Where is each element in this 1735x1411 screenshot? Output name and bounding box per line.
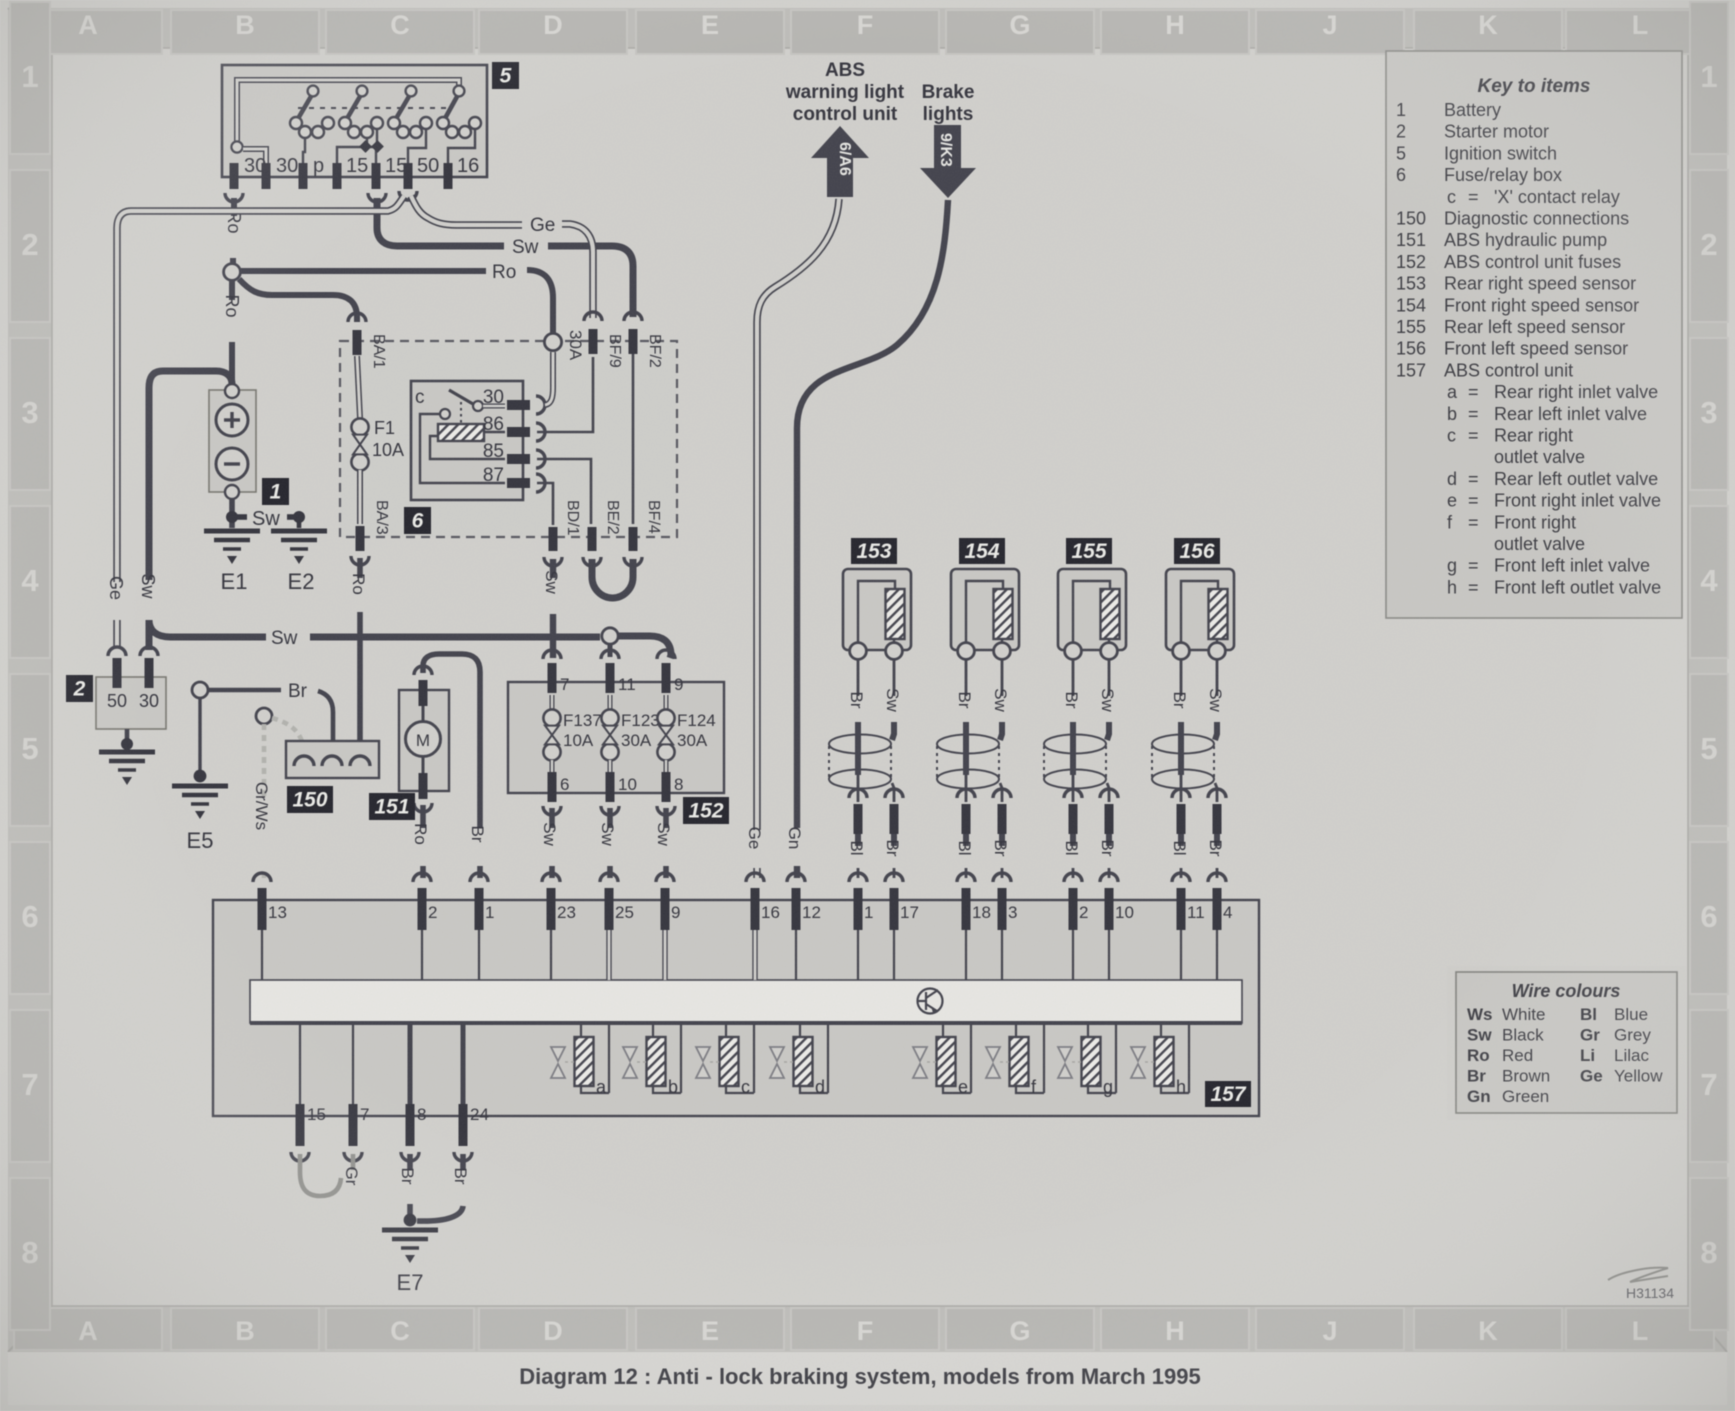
ignition switch contact circles (299, 117, 481, 138)
wire relay 86 to BF/9 (537, 357, 593, 432)
valve b (623, 1023, 681, 1097)
connector BF/2 (624, 312, 663, 368)
ignition switch rail circle (231, 141, 242, 152)
wire Sw battery to starter vertical (138, 371, 232, 650)
wire Sw fuse F123 to pin (598, 808, 617, 878)
relay c body (411, 381, 523, 500)
connector BE/2 (583, 500, 621, 566)
ignition switch terminal pins 30 30 p 15 15 50 16 (230, 155, 480, 189)
ignition switch junction diamonds (359, 140, 384, 153)
starter pins (113, 658, 154, 688)
abs hydraulic pump 151 body (399, 690, 449, 791)
wire Gr pin 15 loose end (300, 1154, 341, 1196)
wire Br pin 24 to E7 (417, 1154, 470, 1221)
abs unit top pins (253, 873, 1232, 980)
wire Ge arrow to pin 16 (757, 199, 839, 830)
wire Sw fuse F124 to pin (654, 808, 673, 878)
abs unit bottom pins (291, 1023, 489, 1161)
wire Ge ignition 50 left branch to starter (117, 196, 404, 582)
fuse relay box 6 black label (404, 507, 431, 534)
wire relay 87 to BD/1 (537, 483, 553, 525)
relay terminals 30 86 85 87 (483, 387, 545, 492)
abs 157 black label (1205, 1081, 1251, 1107)
fuses 152 black label (683, 797, 729, 824)
abs control unit 157 body (213, 900, 1259, 1116)
ground E7 (382, 1230, 438, 1295)
wire Br pin 8 to E7 (398, 1154, 417, 1226)
wire Sw bus horizontal (271, 628, 600, 649)
wire Sw BD/1 to fuse 7 (542, 559, 561, 658)
wire relay 85 to BE/2 (537, 459, 591, 524)
valve c (696, 1023, 754, 1097)
arrow 9/K3 down (920, 125, 976, 198)
connector BA/1 (348, 313, 387, 369)
battery minus terminal (216, 448, 248, 480)
Brake lights text (922, 82, 975, 125)
speed sensor 153 (829, 538, 911, 878)
caption strip (8, 1352, 1727, 1405)
wire Ro BA/3 to diagnostic box (349, 558, 368, 755)
wire Sw fuse F137 to pin (540, 808, 559, 878)
speed sensor 156 (1152, 538, 1234, 878)
fuse F124 30A (657, 650, 716, 815)
valve a (551, 1023, 609, 1097)
wire Sw battery negative to E1 (226, 499, 280, 530)
starter ground symbol (99, 752, 155, 785)
wire Br node to diagnostic box (208, 681, 333, 755)
relay dashed actuator line (460, 402, 462, 424)
starter motor 2 black label (66, 675, 93, 702)
valve e (913, 1023, 971, 1097)
pump 151 black label (369, 793, 415, 820)
starter ground wire (121, 729, 133, 750)
key to items text (1396, 76, 1661, 597)
wire Sw bus branch from starter vertical (149, 620, 266, 637)
pump motor M (406, 722, 441, 757)
pump top pin (414, 666, 432, 722)
wire colours text (1467, 981, 1663, 1106)
diagnostic 150 black label (287, 786, 333, 813)
speed sensor 154 (937, 538, 1019, 878)
wire node to E5 (194, 698, 207, 782)
valve d (770, 1023, 828, 1097)
wire U loop BE/2 to BF/4 (592, 559, 633, 598)
ignition switch rail link to terminal 30b (243, 149, 266, 164)
wire Ro node to 30A horizontal (241, 262, 553, 333)
ignition switch 5 body (222, 65, 487, 177)
node Sw bus junction circle (602, 628, 618, 644)
wire Sw bus circle to fuse 11 (608, 644, 613, 657)
ignition switch inner supply rail (237, 80, 459, 145)
fuse relay box 6 dashed outline (340, 341, 677, 537)
battery plus terminal (216, 404, 248, 436)
valve f (986, 1023, 1044, 1097)
ground E5 (172, 786, 228, 853)
fuse F123 30A (601, 650, 660, 815)
wire Gr pin 7 stub (342, 1154, 361, 1186)
connector BD/1 (544, 500, 581, 566)
ground E1 (204, 531, 260, 594)
wire colours box (1447, 966, 1686, 1120)
starter pin hooks (108, 647, 158, 656)
node Ro junction circle (224, 264, 241, 281)
ground E2 (271, 531, 327, 594)
ignition switch internal links to pins (303, 129, 475, 164)
node Br junction circle (192, 682, 208, 698)
fuse F137 10A (543, 650, 602, 815)
wire Sw ignition 15 to BF/2 (377, 198, 633, 317)
wire Br pump to pin 1 (423, 654, 487, 878)
diagnostic connections 150 body (286, 741, 379, 778)
speed sensor 155 (1044, 538, 1126, 878)
valve h (1131, 1023, 1189, 1097)
signature mark H31134 (1608, 1268, 1674, 1301)
starter motor 2 body (96, 677, 166, 729)
ABS warning light control unit text (785, 60, 905, 125)
ignition switch gang dotted line (298, 107, 452, 109)
relay switch arm (449, 390, 483, 411)
ignition switch 5 black label (492, 62, 519, 89)
ignition switch pin hooks (225, 191, 417, 202)
wire GrWs dashed to diagnostic box (272, 718, 304, 755)
abs control unit fuses 152 body (508, 682, 724, 793)
wire Ge ignition 50 right branch to BF/9 (411, 196, 522, 225)
arrow 6/A6 up (811, 126, 869, 197)
battery 1 black label (262, 478, 289, 505)
battery 1 body (209, 384, 256, 499)
connector BF/4 (624, 500, 662, 566)
connector BF/9 (584, 312, 623, 368)
wire Sw bus to fuse 9 (618, 636, 671, 658)
relay internal wiring (420, 414, 505, 483)
abs control unit inner bus bar (250, 980, 1242, 1023)
key to items box (1386, 51, 1682, 618)
wire Ro pump to pin 2 (411, 805, 430, 878)
wire GrWs dashed to pin 13 (252, 724, 271, 878)
wire BF/2 to BF/4 (632, 354, 635, 524)
wire Ro node to battery positive (222, 281, 242, 384)
relay coil (438, 424, 484, 441)
pump bottom pin (414, 757, 432, 812)
ground E2 stub (287, 511, 305, 528)
relay coil pivot circle (440, 409, 450, 419)
ignition switch contact arms (290, 86, 464, 129)
connector BA/3 (351, 500, 390, 565)
abs unit transistor symbol (918, 989, 943, 1014)
valve g (1058, 1023, 1116, 1097)
relay switch to 30 link (483, 404, 505, 409)
relay 30 wire to 30A connector (545, 352, 553, 405)
wire Ro node to fuse BA/1 (239, 279, 357, 322)
fuse F1 10A (357, 356, 360, 418)
node 30A circle (544, 330, 585, 361)
wire Gn arrow to pin 12 (785, 200, 948, 878)
wire Ro ignition 30 to junction node (224, 198, 244, 264)
node Gr/Ws circle (256, 708, 272, 724)
